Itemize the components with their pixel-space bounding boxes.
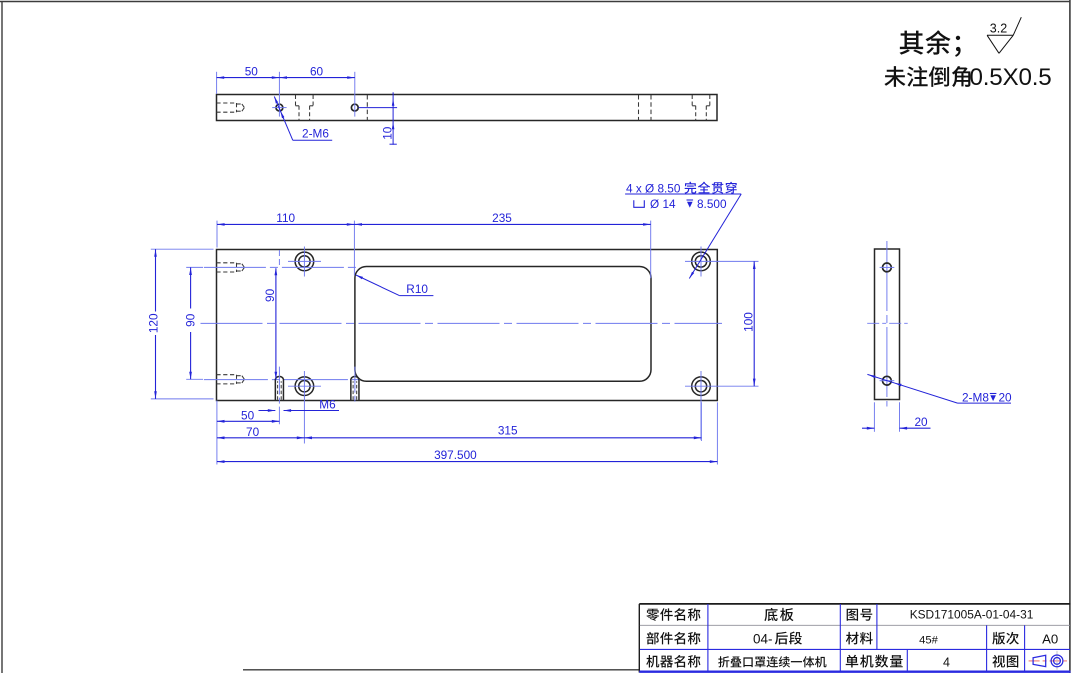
main view left tapped hole upper (hidden) — [216, 263, 244, 272]
top view hole M6 left — [276, 104, 283, 111]
svg-text:100: 100 — [742, 312, 756, 332]
svg-text:2-M8: 2-M8 — [962, 390, 989, 404]
top view left tapped hole M6 (hidden) — [216, 103, 244, 112]
top view pocket tangent line (hidden) — [366, 95, 368, 120]
main view M6 slot left (bottom edge) — [275, 376, 283, 400]
svg-text:20: 20 — [999, 390, 1013, 404]
title block outer black lines — [639, 604, 1070, 673]
svg-text:45#: 45# — [919, 634, 938, 646]
side view hole upper — [880, 263, 895, 272]
svg-text:235: 235 — [492, 211, 512, 225]
dim 110 / dim 235 (main view top) — [217, 211, 651, 278]
main view outline — [217, 250, 718, 401]
svg-text:110: 110 — [276, 211, 295, 225]
svg-text:Ø 14: Ø 14 — [650, 197, 676, 211]
hole counterbore top-right — [685, 247, 759, 277]
svg-text:2-M6: 2-M6 — [302, 127, 329, 141]
note 'wei zhu dao jiao 0.5X0.5' — [884, 64, 1051, 91]
dim 20 (side view) — [862, 402, 931, 432]
centerline M6 slot left upper segment — [278, 250, 280, 267]
main view horizontal centerline — [201, 322, 723, 324]
side view hole lower — [880, 376, 895, 385]
svg-text:R10: R10 — [406, 282, 428, 296]
svg-text:04-: 04- — [753, 631, 773, 646]
dim 90 outer (main view left) — [183, 267, 203, 379]
dim 100 (main view right) — [742, 261, 756, 386]
label 2-M8 depth 20 leader (side view) — [867, 374, 1012, 404]
dim 70 (main view bottom) — [217, 425, 305, 439]
dim 10 (top view) — [359, 92, 398, 144]
centerline M6 slot right — [354, 367, 356, 404]
page border top — [0, 1, 1071, 3]
svg-text:0.5X0.5: 0.5X0.5 — [970, 64, 1052, 91]
label 2-M6 leader (top view) — [274, 97, 332, 141]
svg-text:M6: M6 — [319, 397, 336, 411]
svg-text:315: 315 — [498, 423, 518, 437]
dim 315 (main view bottom) — [304, 402, 701, 441]
centerline lower tapped hole — [204, 379, 363, 381]
svg-text:KSD171005A-01-04-31: KSD171005A-01-04-31 — [910, 608, 1034, 622]
top view counterbore profile right (hidden) — [692, 95, 710, 120]
dim 120 (main view left) — [146, 249, 213, 399]
top view outline — [217, 95, 718, 121]
surface finish symbol 3.2 — [987, 17, 1021, 53]
svg-text:120: 120 — [146, 313, 160, 333]
top view pocket right edge (hidden) — [650, 95, 652, 120]
svg-text:10: 10 — [381, 126, 395, 140]
svg-text:20: 20 — [914, 415, 928, 429]
svg-text:90: 90 — [183, 313, 197, 327]
title row 3 texts — [646, 655, 1018, 670]
title block column lines (blue) — [708, 604, 1025, 672]
svg-text:8.500: 8.500 — [697, 197, 727, 211]
title block row line 1 (gray) — [640, 624, 1070, 626]
hole counterbore top-left — [288, 247, 321, 277]
svg-text:60: 60 — [310, 64, 324, 78]
page border left — [1, 2, 3, 673]
centerline M6 slot left — [278, 367, 280, 425]
page border right — [1069, 0, 1071, 673]
svg-text:A0: A0 — [1042, 631, 1058, 646]
main view pocket (rounded rect R10) — [355, 267, 651, 382]
title row 1 texts — [646, 608, 1033, 622]
dim 50 / dim 60 (top view) — [217, 64, 355, 116]
top view hole M6 right — [351, 104, 358, 111]
svg-text:50: 50 — [245, 64, 259, 78]
side view vertical centerline — [886, 241, 888, 407]
note 'qiyu' (others) — [900, 30, 961, 57]
dim 90 inner (main view) — [263, 268, 277, 380]
svg-text:50: 50 — [241, 408, 255, 422]
title block bottom line (blue) — [639, 671, 1070, 673]
title block row line 2 (blue) — [640, 648, 1070, 650]
top view pocket right tangent (hidden) — [638, 95, 640, 120]
callout 4x counterbore leader — [625, 182, 741, 279]
svg-text:397.500: 397.500 — [434, 448, 477, 462]
dim 50 (main view bottom) — [217, 400, 280, 464]
title row 2 texts — [647, 631, 1059, 646]
top view counterbore profile left (hidden) — [296, 95, 314, 120]
svg-text:4: 4 — [943, 655, 950, 669]
svg-text:90: 90 — [263, 288, 277, 302]
dim M6 (main view bottom slot) — [259, 397, 340, 412]
page border bottom (partial) — [243, 669, 640, 671]
main view left tapped hole lower (hidden) — [216, 375, 244, 384]
main view M6 slot right (bottom edge) — [351, 376, 359, 400]
centerline upper tapped hole — [204, 266, 357, 268]
top view hole left centerline — [272, 107, 286, 109]
side view center cross — [867, 322, 908, 324]
hole counterbore bottom-left — [288, 371, 321, 444]
svg-text:70: 70 — [246, 425, 260, 439]
first-angle projection symbol — [1029, 651, 1067, 670]
hole counterbore bottom-right — [685, 371, 759, 440]
svg-text:3.2: 3.2 — [990, 22, 1007, 36]
dim 397.500 (main view bottom) — [217, 402, 718, 464]
side view outline — [875, 249, 900, 400]
label R10 leader — [356, 275, 434, 296]
